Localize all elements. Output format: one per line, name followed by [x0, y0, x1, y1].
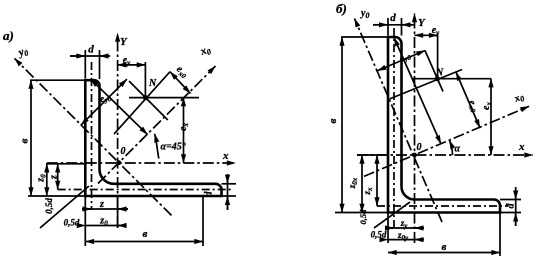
axis y0 diagonal steep — [355, 19, 443, 223]
dimension e_x0 diagonal — [170, 72, 191, 94]
dimension d right end — [500, 199, 521, 201]
axis x0 diagonal — [364, 106, 529, 176]
dimension x0-parallel from y0 axis — [378, 51, 426, 71]
leader 0,5d diagonal — [40, 186, 89, 228]
dimension d right end of horizontal leg — [222, 183, 237, 185]
gauge line 0.5d vertical leg — [393, 28, 395, 228]
leader 0,5d diagonal — [374, 202, 410, 228]
dimension z_x left vertical — [376, 155, 378, 206]
dimension e_x0 steep — [456, 72, 480, 128]
svg-text:x: x — [222, 150, 229, 162]
wire top-cap extension left — [341, 36, 388, 38]
node N dot — [435, 76, 440, 81]
svg-text:0: 0 — [121, 146, 126, 157]
gauge line 0.5d horizontal leg — [377, 205, 508, 207]
wire extension right end for b bottom — [499, 213, 501, 257]
svg-text:0,5d: 0,5d — [358, 209, 368, 225]
wire x0-parallel through N — [390, 70, 462, 99]
axis x horizontal — [357, 154, 533, 156]
svg-text:в: в — [442, 241, 447, 253]
dimension z_oy bottom — [388, 239, 424, 241]
svg-text:z: z — [49, 175, 60, 180]
wire x-axis level extension left — [46, 163, 86, 165]
svg-text:0,5d: 0,5d — [44, 198, 54, 214]
angle alpha arc — [449, 140, 452, 155]
svg-text:еу: еу — [123, 55, 131, 67]
svg-text:ех0: ех0 — [465, 99, 481, 115]
svg-text:в: в — [327, 118, 339, 123]
wire extension left face down for b bottom — [84, 196, 86, 246]
svg-text:в: в — [143, 228, 148, 240]
wire y0-parallel through N — [129, 81, 168, 120]
gauge line 0.5d horizontal leg (dash-dot) — [58, 189, 233, 191]
svg-text:0,5d: 0,5d — [64, 218, 80, 228]
svg-text:d: d — [204, 191, 215, 197]
dimension z bottom — [82, 208, 128, 210]
dimension z0 left vertical — [46, 164, 48, 196]
svg-text:б): б) — [336, 1, 347, 16]
wire left face extension down — [387, 213, 389, 244]
axis x horizontal — [47, 162, 236, 164]
svg-text:y0: y0 — [360, 8, 369, 20]
dimension z_ox left vertical — [361, 155, 363, 213]
gauge line 0.5d vertical leg (dash-dot) — [91, 62, 93, 209]
dimension e_y top — [118, 64, 146, 66]
dimension z_y bottom — [386, 227, 424, 229]
wire x0-parallel extension through N — [114, 72, 170, 134]
dimension e_y0 steep from gauge top to x0 axis — [394, 38, 441, 145]
svg-text:еу: еу — [432, 25, 440, 37]
svg-text:ех: ех — [481, 102, 493, 110]
node O dot — [116, 160, 121, 165]
dimension z0 bottom — [85, 225, 126, 227]
dimension b bottom — [388, 252, 500, 254]
node O dot — [412, 153, 417, 158]
dimension d top — [387, 18, 389, 36]
wire extension from e_y down to N — [437, 33, 439, 79]
angle profile outline — [85, 80, 221, 196]
dimension d top of vertical leg — [84, 50, 86, 79]
node N dot — [143, 95, 148, 100]
svg-text:d: d — [88, 44, 94, 56]
svg-text:y0: y0 — [15, 45, 30, 61]
wire bottom-face extension left — [335, 212, 388, 214]
svg-text:z0: z0 — [99, 216, 108, 228]
wire extension right end for b bottom — [202, 196, 204, 246]
wire y-axis extension below leg — [117, 196, 119, 228]
svg-text:d: d — [390, 12, 396, 24]
svg-text:z0: z0 — [36, 174, 48, 183]
svg-text:Y: Y — [418, 17, 426, 29]
svg-text:x0: x0 — [512, 91, 526, 106]
svg-text:α: α — [455, 144, 461, 155]
dimension x0-parallel from y0 axis — [81, 79, 127, 125]
angle profile outline — [388, 37, 500, 213]
angle alpha=45 arc — [155, 134, 159, 159]
dimension b bottom — [85, 241, 203, 243]
svg-text:x: x — [518, 141, 525, 153]
axis Y vertical — [117, 33, 119, 227]
svg-text:ех: ех — [178, 123, 190, 131]
dimension e_x vertical right — [183, 98, 185, 163]
wire horizontal through N — [412, 78, 491, 80]
svg-text:в: в — [19, 138, 31, 143]
svg-text:zх: zх — [362, 187, 374, 196]
svg-text:0,5d: 0,5d — [371, 230, 387, 240]
svg-text:α=45°: α=45° — [161, 142, 186, 153]
wire y0-parallel through N — [425, 51, 443, 92]
axis x0 diagonal 45 — [98, 66, 216, 184]
dimension b left vertical — [341, 37, 343, 213]
dimension z left vertical — [57, 164, 59, 190]
svg-text:z0х: z0х — [347, 177, 359, 189]
wire top-cap extension to left b-dimension — [30, 79, 85, 81]
svg-text:a): a) — [3, 28, 14, 43]
dimension b left vertical — [30, 80, 32, 196]
axis y0 diagonal 135 — [15, 58, 172, 215]
dimension e_x vertical — [490, 79, 492, 155]
wire horizontal through N — [129, 97, 199, 99]
svg-text:0: 0 — [417, 142, 422, 153]
dimension e_y top — [415, 34, 438, 36]
svg-text:x0: x0 — [198, 43, 212, 59]
dimension e_y0 diagonal from gauge top to x0 axis — [91, 79, 148, 135]
wire extension from e_y down to N — [144, 62, 146, 98]
wire x-axis solid extension left — [357, 154, 388, 156]
svg-text:d: d — [506, 203, 517, 209]
wire bottom-face extension to left — [28, 195, 85, 197]
svg-text:еу0: еу0 — [398, 50, 413, 64]
svg-text:Y: Y — [120, 36, 128, 48]
axis Y vertical — [414, 14, 416, 244]
svg-text:z: z — [99, 199, 104, 210]
